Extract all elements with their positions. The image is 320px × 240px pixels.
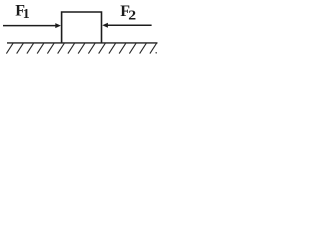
force arrow F2 (head) xyxy=(102,23,108,28)
hatching xyxy=(6,43,156,53)
svg-text:2: 2 xyxy=(128,8,136,23)
force arrow F2 (shaft) xyxy=(107,24,152,26)
force arrow F1 (head) xyxy=(55,23,61,28)
svg-text:1: 1 xyxy=(23,6,30,21)
force arrow F1 (shaft) xyxy=(3,25,56,27)
ground line xyxy=(7,42,158,44)
dot artifact xyxy=(155,52,157,54)
block M xyxy=(62,12,102,43)
